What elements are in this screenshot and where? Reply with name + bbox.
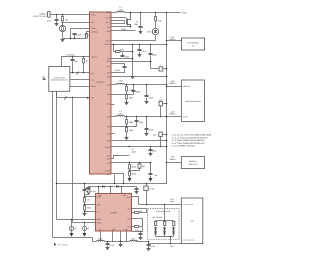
wire CLPROG xyxy=(87,32,90,35)
wire fb5 xyxy=(130,169,140,171)
resistor R12 xyxy=(129,172,131,176)
bottom wire strings xyxy=(156,237,174,244)
cap C14 boxed xyxy=(139,162,141,164)
svg-text:1M: 1M xyxy=(140,210,143,213)
resistor R7 xyxy=(126,84,128,86)
svg-text:1. C2, C3, C4: TDK C2012X5R0J1: 1. C2, C3, C4: TDK C2012X5R0J106M (0805) xyxy=(172,134,212,137)
wire ss xyxy=(85,211,96,213)
ground xyxy=(83,213,87,216)
svg-text:1: 1 xyxy=(160,64,161,67)
wire bat pin xyxy=(111,174,124,184)
svg-text:RED: RED xyxy=(147,30,152,33)
feedback loop R6 xyxy=(111,45,133,59)
resistor R9 xyxy=(126,116,128,118)
capacitor C7 10uF xyxy=(139,44,141,46)
svg-text:4.6k: 4.6k xyxy=(135,229,139,232)
svg-text:x2: x2 xyxy=(74,227,76,230)
svg-text:86.6k: 86.6k xyxy=(132,166,137,169)
wire SW4 xyxy=(111,116,117,118)
box LCD xyxy=(181,198,203,244)
wire gnd pin drop xyxy=(114,175,116,184)
box SYSTEM xyxy=(182,38,205,50)
capacitor C8 xyxy=(150,44,152,46)
capacitor C3 1uF xyxy=(72,57,74,60)
resistor R14 parallel xyxy=(88,189,90,193)
svg-text:4.7µF: 4.7µF xyxy=(149,187,155,190)
wire DVcc xyxy=(70,86,90,88)
ground xyxy=(61,39,65,42)
svg-text:1.05M: 1.05M xyxy=(121,28,127,31)
compensation loop xyxy=(111,64,125,73)
top wire strings xyxy=(156,220,174,222)
wire vin2 xyxy=(111,76,167,78)
diode D2 xyxy=(116,185,119,188)
node junction r1 xyxy=(62,14,64,16)
svg-text:350mA: 350mA xyxy=(170,113,177,116)
wire PROG xyxy=(71,29,90,39)
svg-text:500mA: 500mA xyxy=(170,38,177,41)
capacitor C11 feedforward xyxy=(136,116,138,118)
svg-text:1M: 1M xyxy=(87,199,90,202)
ground xyxy=(56,21,58,23)
LED D3 red xyxy=(152,28,158,34)
capacitor C12 xyxy=(146,116,148,118)
wire pwm2 xyxy=(73,222,96,224)
wire 1.8V memory xyxy=(166,86,168,88)
svg-text:2.2µF: 2.2µF xyxy=(76,33,82,36)
svg-text:2k: 2k xyxy=(86,60,88,63)
wire vout4 xyxy=(111,146,167,148)
svg-text:BACKLIGHT LEDs: BACKLIGHT LEDs xyxy=(156,210,170,213)
IC U1 LTC3577 body xyxy=(90,12,112,174)
svg-text:10µH: 10µH xyxy=(132,151,137,154)
svg-text:270k: 270k xyxy=(158,20,162,23)
led string 1 xyxy=(155,221,157,225)
wire I2C SCL xyxy=(70,79,90,81)
wire fb3 xyxy=(111,94,127,96)
wire 1.2V core xyxy=(125,116,182,118)
ground mid xyxy=(120,241,122,243)
svg-text:150mA: 150mA xyxy=(170,158,177,161)
svg-text:86.6k: 86.6k xyxy=(132,173,137,176)
box MEMORY CARD xyxy=(181,157,204,169)
transistor Q1 xyxy=(111,17,127,19)
wire NTC pin xyxy=(63,22,90,23)
capacitor C4 10uF xyxy=(140,12,142,14)
bottom pins xyxy=(101,231,127,242)
wire shdn xyxy=(85,196,96,198)
ground arrow xyxy=(129,176,131,178)
cap C16 xyxy=(88,187,90,188)
svg-text:CARD SLOT: CARD SLOT xyxy=(188,163,199,166)
indicator LED circle 1 xyxy=(71,220,73,227)
wire vin top pin xyxy=(110,186,112,188)
dashed box xyxy=(148,209,180,240)
cap C20 xyxy=(107,241,109,243)
node bus junctions xyxy=(56,183,58,185)
svg-text:400mA: 400mA xyxy=(170,82,177,85)
svg-text:4.7µH: 4.7µH xyxy=(118,8,124,11)
wire uC down 2 xyxy=(56,92,58,220)
node xyxy=(83,56,85,58)
wire sense xyxy=(111,21,125,24)
svg-text:0.1µF: 0.1µF xyxy=(91,190,97,193)
svg-text:SYSTEM HDD: SYSTEM HDD xyxy=(187,41,199,44)
wire vout lcd xyxy=(132,197,139,205)
capacitor C10 xyxy=(146,84,148,86)
svg-text:4.7µH: 4.7µH xyxy=(118,80,124,83)
cap C21 0.1uF xyxy=(148,241,150,243)
resistor R8 xyxy=(126,95,128,99)
pushbutton PB1 xyxy=(43,77,46,80)
wire chrg xyxy=(111,35,156,41)
wire aux1 stub xyxy=(111,133,115,135)
wire sw loop xyxy=(111,156,130,159)
wire bottom prog xyxy=(63,38,87,40)
wire pwm1 xyxy=(57,219,96,221)
wire ctrl xyxy=(85,204,96,206)
cap C15 xyxy=(150,163,152,174)
resistor R5 270k xyxy=(155,12,157,14)
capacitor C2 xyxy=(74,35,76,39)
node xyxy=(72,56,74,58)
capacitor C9 feedforward xyxy=(133,84,135,86)
bus slash xyxy=(77,72,79,75)
gnd pin stub xyxy=(111,104,115,106)
capacitor C1 1uF xyxy=(55,20,59,21)
cap C17 xyxy=(122,187,137,189)
svg-text:4.7µF: 4.7µF xyxy=(47,19,53,22)
wire SW3 xyxy=(111,84,117,86)
resistor R4 label xyxy=(111,30,136,32)
svg-text:0.1µF: 0.1µF xyxy=(150,245,156,248)
left pin network xyxy=(84,184,86,189)
figure number xyxy=(54,243,56,246)
wire bus2 diode row xyxy=(89,187,99,194)
svg-text:2.2µH: 2.2µH xyxy=(118,112,124,115)
svg-text:10mA: 10mA xyxy=(170,200,176,203)
bus3 xyxy=(93,241,149,243)
led string 3 xyxy=(173,221,175,225)
svg-text:VOUT: VOUT xyxy=(182,11,188,14)
wire cap stub xyxy=(56,15,58,20)
box MICROPROCESSOR xyxy=(182,80,205,122)
wire ldo out xyxy=(111,162,151,164)
fb loop 2 xyxy=(132,227,143,232)
indicator LED circle 2 xyxy=(84,223,86,227)
svg-text:LT3591: LT3591 xyxy=(110,212,118,215)
wire 3.3V to system xyxy=(166,40,168,42)
wire fb4 xyxy=(111,126,127,128)
resistor R3 pullup xyxy=(83,57,85,59)
resistor R10 xyxy=(126,128,128,132)
wire lcd positive xyxy=(139,204,182,206)
microcontroller box xyxy=(49,67,70,92)
cap C22 xyxy=(140,231,142,233)
node vbus junction xyxy=(56,14,58,16)
svg-text:MEMORY: MEMORY xyxy=(189,160,198,163)
wire filtered xyxy=(151,68,159,70)
fb column xyxy=(132,44,134,46)
diode D1 xyxy=(99,186,102,188)
ferrite bead FB1 xyxy=(159,67,163,71)
resistor R1 10k xyxy=(62,15,64,17)
ground fb3 xyxy=(126,100,128,102)
svg-text:5. ALL OTHERS: X5R 0402: 5. ALL OTHERS: X5R 0402 xyxy=(172,145,196,148)
arrowhead ON xyxy=(87,97,90,99)
inductor L4 vertical xyxy=(129,146,131,148)
svg-text:1.02M: 1.02M xyxy=(118,48,124,51)
svg-text:10k: 10k xyxy=(65,18,68,21)
wire SW1 xyxy=(111,12,117,14)
bus slash 2 xyxy=(65,97,67,100)
wire gate2 xyxy=(111,20,125,22)
resistor R13 xyxy=(84,198,86,202)
wire uC down 1 xyxy=(53,92,93,242)
wire I2C SDA xyxy=(70,72,90,74)
rail 166.5 xyxy=(166,12,168,14)
connector J1 xyxy=(48,12,51,18)
wire fb1 xyxy=(111,26,131,28)
wire vout2 xyxy=(111,44,167,46)
svg-text:806k: 806k xyxy=(129,121,133,124)
cap C19 xyxy=(85,188,89,191)
bypass box B2 xyxy=(159,101,163,105)
inductor L6 xyxy=(130,241,138,242)
wire LDO3V3 rail xyxy=(62,57,90,67)
wire lcd negative xyxy=(149,242,182,244)
capacitor C6 xyxy=(122,53,124,56)
resistor R11 xyxy=(129,162,131,164)
svg-text:x2: x2 xyxy=(87,227,89,230)
wire 1.8V memory card xyxy=(166,162,168,164)
wire ON pin xyxy=(57,92,90,98)
IC U2 body xyxy=(96,194,132,232)
svg-text:3577 TA01b: 3577 TA01b xyxy=(58,244,68,247)
wire down from ON xyxy=(72,98,74,223)
wire cap pin xyxy=(132,219,143,227)
wire feed drop xyxy=(164,205,166,221)
svg-text:LTC3577: LTC3577 xyxy=(96,81,105,84)
svg-text:4.35V TO 5.5V: 4.35V TO 5.5V xyxy=(33,15,47,18)
svg-text:2. L1, L2: TOKO 1072AS-4R7M (A: 2. L1, L2: TOKO 1072AS-4R7M (A915AY) xyxy=(172,136,208,139)
svg-text:4.7µF: 4.7µF xyxy=(110,244,116,247)
svg-text:301k: 301k xyxy=(87,207,91,210)
cap C18 boxed 4.7uF xyxy=(146,184,148,187)
resistor R15 xyxy=(84,206,86,210)
capacitor C13 xyxy=(150,146,152,148)
svg-text:470pF: 470pF xyxy=(115,69,121,72)
svg-text:3.01k: 3.01k xyxy=(84,34,89,37)
svg-text:324k: 324k xyxy=(129,129,133,132)
led string 2 xyxy=(164,221,166,225)
svg-text:3. L3: TOKO 1098AS-2R2M (A997A: 3. L3: TOKO 1098AS-2R2M (A997AS) xyxy=(172,139,205,142)
svg-text:10µH: 10µH xyxy=(98,238,103,241)
wire vin2a xyxy=(111,61,151,63)
fb loop 1 xyxy=(132,209,147,213)
resistor R2 xyxy=(86,34,88,38)
wire vout1 rail xyxy=(125,12,181,14)
wire to ground xyxy=(62,32,64,39)
inductor L5 xyxy=(97,241,105,242)
svg-text:10µH: 10µH xyxy=(131,238,136,241)
bypass box B3 xyxy=(159,132,163,136)
svg-text:324k: 324k xyxy=(129,96,133,99)
ground arrow 2 xyxy=(150,176,152,178)
svg-text:4. L4: TOKO 1098AS-4R7M (A997A: 4. L4: TOKO 1098AS-4R7M (A997AS) xyxy=(172,142,205,145)
svg-text:LED DRIVER: LED DRIVER xyxy=(152,216,163,219)
wire vin row xyxy=(111,140,167,142)
wire VBUS xyxy=(51,14,90,16)
NTC thermistor circle xyxy=(62,23,64,26)
